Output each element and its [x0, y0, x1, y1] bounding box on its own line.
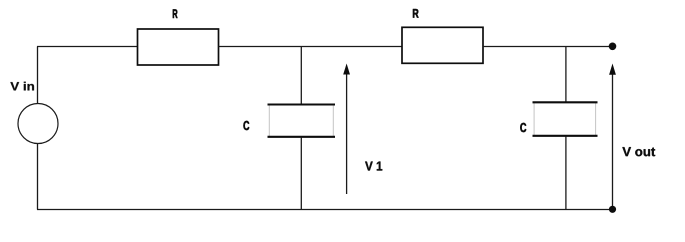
wire: left vertical upper segment	[37, 47, 39, 104]
node: output bottom junction dot	[609, 206, 616, 213]
wire: C1 lower lead	[300, 138, 302, 210]
wire: left vertical lower segment	[37, 144, 39, 210]
label C (C2 value)	[520, 123, 526, 132]
resistor R1	[138, 29, 219, 65]
capacitor C2	[533, 102, 598, 136]
label R (R2 value)	[413, 9, 419, 18]
capacitor C1	[268, 105, 336, 137]
arrow: node voltage V1 (points up)	[343, 64, 350, 195]
wire: C2 lower lead	[565, 137, 567, 210]
label V out	[622, 147, 655, 156]
voltage source V in (circle)	[18, 104, 58, 144]
wire: bottom return rail	[37, 209, 613, 211]
wire: top rail from R1 to resistor R2 (through node at C1)	[219, 46, 403, 48]
resistor R2	[402, 27, 483, 63]
node: output top junction dot	[609, 43, 617, 51]
label V in	[10, 82, 34, 91]
wire: C1 upper lead	[300, 47, 302, 105]
wire: top rail from R2 to output node	[483, 46, 613, 48]
label V1	[365, 162, 382, 171]
label C (C1 value)	[243, 121, 249, 130]
wire: top rail from source to resistor R1	[37, 46, 138, 48]
wire: C2 upper lead	[565, 47, 567, 103]
arrow: output voltage V out (points up)	[609, 64, 616, 210]
label R (R1 value)	[173, 9, 178, 18]
